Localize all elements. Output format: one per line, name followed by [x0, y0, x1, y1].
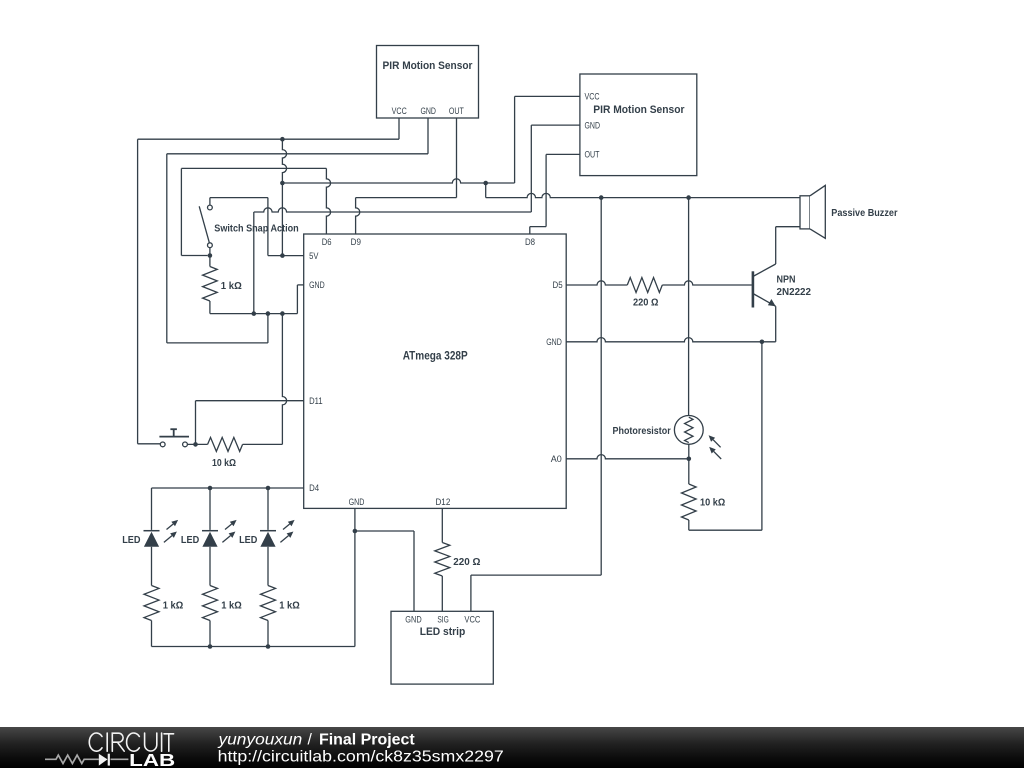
svg-text:1 kΩ: 1 kΩ [163, 600, 184, 611]
svg-text:/: / [308, 731, 313, 748]
svg-text:VCC: VCC [392, 106, 407, 116]
svg-text:GND: GND [585, 120, 601, 130]
svg-text:Photoresistor: Photoresistor [613, 425, 671, 437]
svg-text:LED: LED [239, 534, 258, 546]
svg-text:VCC: VCC [464, 615, 480, 625]
svg-text:220 Ω: 220 Ω [453, 557, 480, 568]
svg-text:GND: GND [420, 106, 436, 116]
svg-text:D8: D8 [525, 237, 535, 247]
svg-text:A0: A0 [551, 454, 562, 464]
svg-text:LED: LED [122, 534, 141, 546]
svg-text:PIR Motion Sensor: PIR Motion Sensor [593, 104, 685, 116]
svg-text:Switch Snap Action: Switch Snap Action [214, 223, 298, 235]
svg-text:VCC: VCC [585, 92, 600, 102]
svg-text:GND: GND [309, 280, 325, 290]
svg-text:10 kΩ: 10 kΩ [700, 498, 725, 509]
svg-text:220 Ω: 220 Ω [633, 298, 659, 309]
svg-text:GND: GND [405, 615, 422, 625]
svg-text:LED strip: LED strip [420, 626, 466, 638]
svg-text:D6: D6 [322, 237, 332, 247]
svg-text:2N2222: 2N2222 [777, 286, 812, 298]
svg-text:NPN: NPN [777, 274, 796, 286]
svg-text:1 kΩ: 1 kΩ [221, 281, 242, 292]
svg-text:D11: D11 [309, 396, 323, 406]
svg-text:GND: GND [349, 497, 365, 507]
svg-text:D4: D4 [309, 483, 319, 493]
svg-text:10 kΩ: 10 kΩ [212, 458, 236, 469]
svg-text:yunyouxun: yunyouxun [217, 731, 302, 748]
svg-text:OUT: OUT [449, 106, 464, 116]
svg-text:OUT: OUT [585, 150, 600, 160]
svg-text:D5: D5 [553, 280, 563, 290]
svg-text:D9: D9 [351, 237, 361, 247]
svg-text:GND: GND [546, 337, 562, 347]
svg-text:SIG: SIG [437, 615, 449, 625]
svg-text:LAB: LAB [129, 750, 175, 768]
svg-text:D12: D12 [435, 497, 450, 507]
svg-text:PIR Motion Sensor: PIR Motion Sensor [383, 60, 474, 72]
svg-text:Passive Buzzer: Passive Buzzer [831, 207, 897, 219]
svg-text:LED: LED [181, 534, 200, 546]
svg-text:1 kΩ: 1 kΩ [221, 600, 242, 611]
svg-text:Final Project: Final Project [319, 731, 415, 748]
svg-text:ATmega 328P: ATmega 328P [403, 348, 468, 362]
svg-text:5V: 5V [309, 251, 319, 261]
svg-text:1 kΩ: 1 kΩ [279, 600, 300, 611]
svg-text:http://circuitlab.com/ck8z35sm: http://circuitlab.com/ck8z35smx2297 [218, 748, 504, 765]
